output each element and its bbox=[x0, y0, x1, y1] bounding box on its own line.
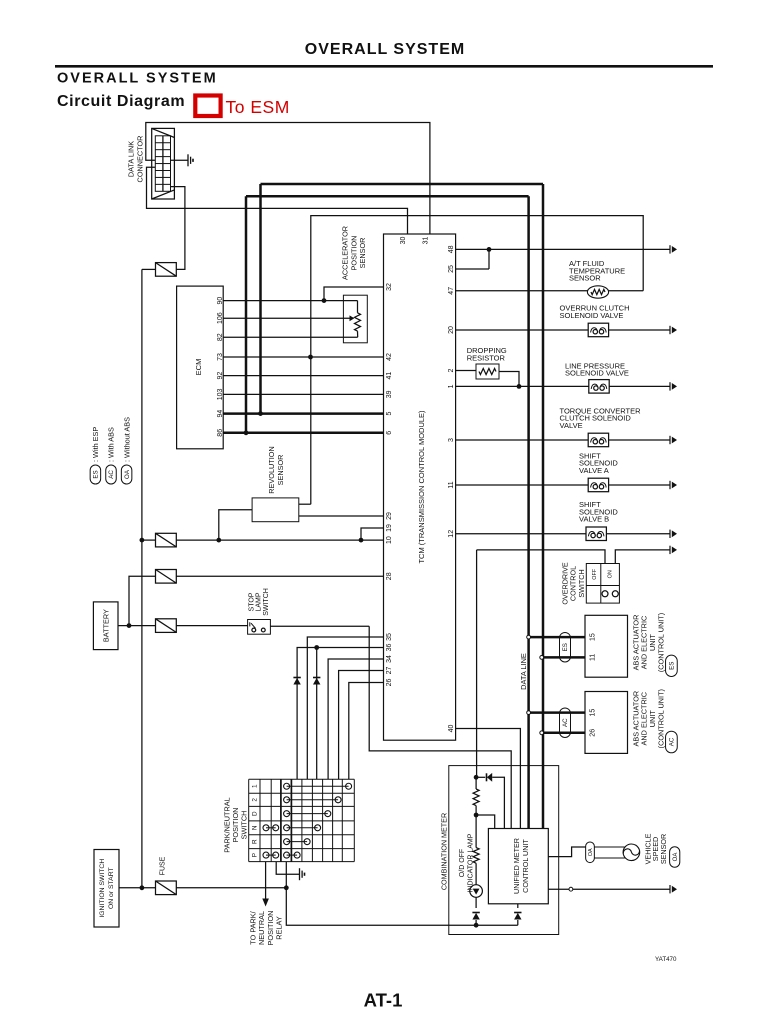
svg-text:20: 20 bbox=[448, 326, 455, 334]
svg-text:5: 5 bbox=[386, 412, 393, 416]
svg-text:15: 15 bbox=[590, 633, 597, 641]
svg-text:OA: OA bbox=[124, 469, 131, 479]
svg-text:2: 2 bbox=[252, 798, 259, 802]
svg-text:: With ESP: : With ESP bbox=[91, 427, 100, 462]
svg-text:O/D OFF: O/D OFF bbox=[459, 849, 466, 877]
svg-text:Circuit Diagram: Circuit Diagram bbox=[57, 93, 185, 110]
svg-text:TO PARK/: TO PARK/ bbox=[248, 910, 257, 944]
svg-text:31: 31 bbox=[422, 237, 429, 245]
svg-text:AC: AC bbox=[669, 737, 676, 746]
svg-text:92: 92 bbox=[217, 372, 224, 380]
svg-text:28: 28 bbox=[386, 572, 393, 580]
svg-text:SWITCH: SWITCH bbox=[577, 569, 586, 597]
svg-text:INDICATOR LAMP: INDICATOR LAMP bbox=[468, 833, 475, 892]
svg-text:SENSOR: SENSOR bbox=[276, 455, 285, 486]
svg-text:106: 106 bbox=[217, 312, 224, 324]
svg-text:OFF: OFF bbox=[592, 568, 598, 579]
svg-text:29: 29 bbox=[386, 512, 393, 520]
svg-text:CONTROL UNIT: CONTROL UNIT bbox=[521, 839, 530, 893]
svg-text:FUSE: FUSE bbox=[160, 856, 167, 875]
svg-text:39: 39 bbox=[386, 390, 393, 398]
svg-text:103: 103 bbox=[217, 388, 224, 400]
svg-text:UNIFIED METER: UNIFIED METER bbox=[512, 838, 521, 894]
svg-text:30: 30 bbox=[400, 237, 407, 245]
svg-text:82: 82 bbox=[217, 333, 224, 341]
svg-text:: With ABS: : With ABS bbox=[107, 427, 116, 462]
svg-text:TCM (TRANSMISSION CONTROL MODU: TCM (TRANSMISSION CONTROL MODULE) bbox=[417, 410, 426, 564]
svg-text:ES: ES bbox=[669, 662, 676, 670]
svg-text:41: 41 bbox=[386, 372, 393, 380]
svg-text:(CONTROL UNIT): (CONTROL UNIT) bbox=[656, 613, 665, 672]
svg-text:IGNITION SWITCH: IGNITION SWITCH bbox=[99, 859, 106, 918]
svg-text:OA: OA bbox=[588, 848, 594, 856]
svg-text:OVERALL SYSTEM: OVERALL SYSTEM bbox=[305, 41, 465, 58]
svg-text:47: 47 bbox=[448, 287, 455, 295]
svg-text:: Without ABS: : Without ABS bbox=[122, 417, 131, 462]
svg-text:SWITCH: SWITCH bbox=[263, 588, 270, 616]
svg-text:12: 12 bbox=[448, 530, 455, 538]
svg-text:SENSOR: SENSOR bbox=[659, 834, 668, 864]
svg-text:VALVE A: VALVE A bbox=[579, 466, 609, 475]
svg-text:26: 26 bbox=[590, 729, 597, 737]
svg-text:POSITION: POSITION bbox=[349, 236, 358, 271]
svg-text:ES: ES bbox=[93, 470, 100, 478]
svg-text:11: 11 bbox=[590, 654, 597, 661]
svg-text:N: N bbox=[252, 825, 259, 830]
svg-text:3: 3 bbox=[448, 438, 455, 442]
svg-text:SOLENOID VALVE: SOLENOID VALVE bbox=[560, 311, 624, 320]
svg-text:BATTERY: BATTERY bbox=[102, 609, 111, 642]
svg-text:ECM: ECM bbox=[194, 359, 203, 376]
svg-text:ON or START: ON or START bbox=[108, 867, 115, 909]
svg-text:LAMP: LAMP bbox=[256, 592, 263, 611]
svg-text:1: 1 bbox=[448, 384, 455, 388]
svg-text:ON: ON bbox=[608, 570, 614, 578]
svg-text:15: 15 bbox=[590, 709, 597, 717]
svg-text:ACCELERATOR: ACCELERATOR bbox=[341, 226, 350, 280]
svg-text:DATA LINK: DATA LINK bbox=[127, 141, 136, 177]
svg-text:REVOLUTION: REVOLUTION bbox=[267, 446, 276, 493]
svg-text:VALVE B: VALVE B bbox=[579, 515, 609, 524]
svg-text:AC: AC bbox=[562, 718, 569, 727]
svg-text:48: 48 bbox=[448, 245, 455, 253]
svg-text:VALVE: VALVE bbox=[560, 421, 583, 430]
svg-text:26: 26 bbox=[386, 679, 393, 687]
svg-text:36: 36 bbox=[386, 644, 393, 652]
svg-text:SENSOR: SENSOR bbox=[569, 274, 601, 283]
svg-text:73: 73 bbox=[217, 353, 224, 361]
svg-text:6: 6 bbox=[386, 431, 393, 435]
svg-text:32: 32 bbox=[386, 283, 393, 291]
svg-text:OA: OA bbox=[673, 853, 679, 862]
svg-text:90: 90 bbox=[217, 297, 224, 305]
svg-text:SWITCH: SWITCH bbox=[240, 811, 249, 840]
svg-text:STOP: STOP bbox=[248, 592, 255, 611]
svg-text:35: 35 bbox=[386, 633, 393, 641]
svg-text:19: 19 bbox=[386, 524, 393, 532]
svg-text:94: 94 bbox=[217, 410, 224, 418]
svg-text:COMBINATION METER: COMBINATION METER bbox=[439, 813, 448, 890]
svg-text:(CONTROL UNIT): (CONTROL UNIT) bbox=[656, 689, 665, 748]
svg-text:RESISTOR: RESISTOR bbox=[467, 354, 506, 363]
svg-text:11: 11 bbox=[448, 481, 455, 488]
svg-text:86: 86 bbox=[217, 429, 224, 437]
svg-text:27: 27 bbox=[386, 667, 393, 675]
svg-text:AT-1: AT-1 bbox=[364, 990, 403, 1011]
svg-text:40: 40 bbox=[448, 725, 455, 733]
svg-text:SENSOR: SENSOR bbox=[358, 238, 367, 269]
svg-text:AC: AC bbox=[108, 470, 115, 479]
svg-text:CONNECTOR: CONNECTOR bbox=[135, 136, 144, 183]
svg-text:NEUTRAL: NEUTRAL bbox=[257, 911, 266, 945]
svg-text:2: 2 bbox=[448, 368, 455, 372]
svg-text:34: 34 bbox=[386, 655, 393, 663]
svg-text:R: R bbox=[252, 839, 259, 844]
svg-text:YAT470: YAT470 bbox=[655, 956, 677, 963]
svg-text:ES: ES bbox=[562, 643, 569, 651]
svg-text:RELAY: RELAY bbox=[275, 916, 284, 940]
svg-text:P: P bbox=[252, 853, 259, 857]
svg-text:To ESM: To ESM bbox=[226, 97, 290, 117]
svg-text:42: 42 bbox=[386, 353, 393, 361]
svg-text:25: 25 bbox=[448, 265, 455, 273]
svg-text:1: 1 bbox=[252, 784, 259, 788]
svg-text:10: 10 bbox=[386, 536, 393, 544]
svg-text:POSITION: POSITION bbox=[266, 911, 275, 946]
svg-text:DATA LINE: DATA LINE bbox=[519, 653, 528, 690]
svg-text:SOLENOID VALVE: SOLENOID VALVE bbox=[565, 369, 629, 378]
svg-text:D: D bbox=[252, 811, 259, 816]
svg-text:OVERALL SYSTEM: OVERALL SYSTEM bbox=[57, 71, 218, 87]
